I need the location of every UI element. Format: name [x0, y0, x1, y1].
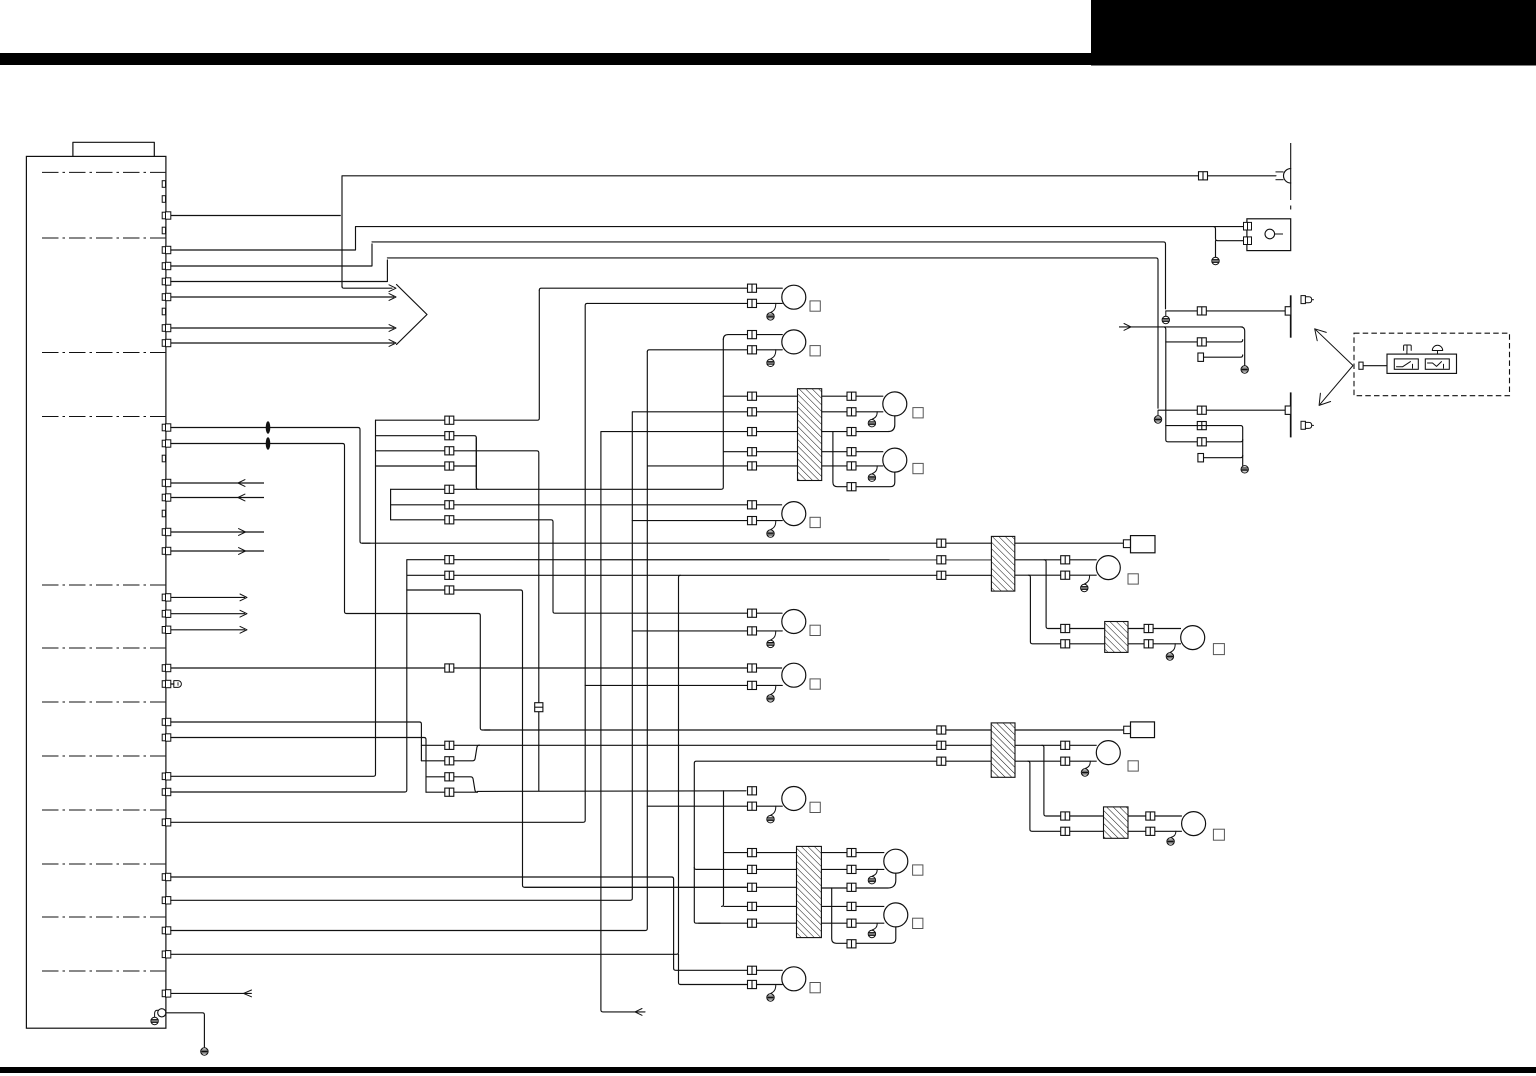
wire arrow pin 597.4	[171, 596, 245, 598]
wire pin 930.5 to x647.3	[171, 352, 648, 931]
connector pair lampB bottom	[748, 346, 757, 354]
vertical x476.3 rows2/4 to row5	[476, 438, 478, 490]
lamp D circle	[782, 610, 806, 634]
label square lampK2	[1213, 829, 1224, 840]
lamp J circle	[1096, 556, 1120, 580]
ECU pin y877	[162, 874, 165, 881]
ECU block top tab	[73, 142, 154, 156]
lamp J2 circle	[1096, 741, 1120, 765]
ECU internal dash-dot divider 2	[42, 237, 165, 239]
connector pair row5	[445, 485, 454, 493]
ECU pin y250	[162, 247, 165, 254]
wire net H1 (y175.8 feed + chevron drop)	[342, 176, 1276, 287]
ECU pin y199	[162, 196, 165, 203]
ground symbol x1244.7 upper	[1241, 366, 1248, 373]
fan row3 y450.8	[376, 451, 539, 791]
lampA bottom segment	[587, 302, 782, 304]
connector pair hatch1 row431 left	[748, 428, 757, 436]
connector pair row7 fan	[445, 516, 454, 524]
lampG ground stub	[771, 985, 776, 994]
plug icon upper	[1301, 296, 1305, 304]
hatch2 branch x832.9 lower	[832, 888, 896, 943]
arrowhead y629.8	[240, 626, 247, 633]
hatch2 rows left	[724, 852, 797, 854]
wire H3 y241.9 to right	[372, 242, 1166, 309]
connector pair lampA bottom	[748, 299, 757, 307]
connector pair lampF bottom	[748, 802, 757, 810]
lamp A headlight circle	[782, 285, 806, 309]
connector pair K2 left top	[1061, 812, 1070, 820]
device box 1 connector	[1123, 540, 1130, 548]
hatch5 row2 right to lampJ2	[1015, 744, 1097, 746]
hatch1 rows left	[647, 465, 797, 467]
connector pair row792 lamp	[748, 787, 757, 795]
ground symbol x1244.7 lower	[1241, 466, 1248, 473]
fan row7 y519.8	[391, 520, 782, 613]
wire pin 722 to x421.4	[171, 722, 422, 761]
ECU pin y532	[162, 529, 165, 536]
unit bar lower	[1290, 392, 1292, 437]
connector pair H top	[847, 392, 856, 400]
label square lampF	[810, 802, 820, 812]
label square lampB	[810, 346, 820, 356]
branch x1046.1 J to K	[1044, 560, 1105, 629]
wire pin 281.5 riser to H4	[171, 260, 388, 282]
label square lampG	[810, 983, 820, 993]
lampB top segment	[723, 335, 782, 340]
page frame / header bar	[0, 53, 1091, 65]
arrowhead ground run	[635, 1009, 642, 1016]
connector pair row8 fan	[445, 556, 454, 564]
connector pair M top	[847, 902, 856, 910]
single connector row357	[1198, 353, 1204, 361]
ECU pin y266	[162, 263, 165, 270]
ground symbol lampK2	[1167, 838, 1174, 845]
connector pair row4	[445, 462, 454, 470]
branch x1029.9 J2 to K2	[1028, 761, 1104, 831]
hatch3 row2 right to lampJ	[1015, 559, 1097, 561]
hatch1 row5 right	[822, 465, 884, 467]
ECU pin y184	[162, 181, 165, 188]
ECU pin y993.4	[162, 990, 165, 997]
single connector row310	[1285, 307, 1291, 315]
ECU pin y281.5	[162, 278, 165, 285]
wire arrow pin 629.8	[171, 629, 245, 631]
wire row y730 to hatch5	[484, 729, 991, 731]
ECU internal dash-dot divider 5	[42, 584, 165, 586]
connector pair row310	[1197, 307, 1206, 315]
lampI ground stub	[872, 466, 877, 474]
ground symbol lampJ	[1081, 584, 1088, 591]
arrowhead y551	[239, 548, 246, 555]
connector pair I return	[847, 483, 856, 491]
ground symbol lampE	[767, 695, 774, 702]
vertical x694.8 row761 to hatch2	[694, 761, 991, 923]
ground symbol lampA	[767, 313, 774, 320]
fan row y776.8 jog	[426, 777, 478, 792]
connector pair row668 lamp	[748, 664, 757, 672]
ground stub x1158 lower	[1157, 410, 1159, 416]
ECU pin y458.5	[162, 455, 165, 462]
wire pin 668 to lampE top	[171, 667, 782, 669]
connector pair row9 right	[937, 571, 946, 579]
hatch block 2	[797, 846, 822, 937]
connector pair L bottom	[847, 865, 856, 873]
fan vertical x390.6	[390, 489, 392, 520]
connector pair lampG bottom	[748, 980, 757, 988]
ground symbol body	[201, 1048, 208, 1055]
lamp C circle	[782, 502, 806, 526]
wire pin 954.3 to x678.5	[171, 575, 681, 954]
lamp L circle	[884, 849, 908, 873]
lampF bottom segment	[647, 805, 782, 807]
connector pair lampB top	[748, 331, 757, 339]
arrowhead y613.7	[240, 610, 247, 617]
relay pin lower	[1244, 237, 1248, 245]
lampG top segment	[674, 968, 783, 970]
lampL return wire	[821, 873, 895, 888]
stub plug pin 684	[171, 683, 174, 685]
wire arrow pin 343	[171, 342, 394, 344]
hatch1 row4 right to lampI	[822, 451, 884, 453]
fan row1 y420.2	[376, 290, 540, 420]
wire pin 877 to x673.6	[171, 877, 674, 968]
connector pair row425	[1197, 422, 1206, 430]
connector pair J bottom	[1061, 571, 1070, 579]
hatch block 4	[1105, 622, 1128, 653]
fan row6 y504.8 to lampC	[391, 504, 782, 506]
ground symbol ECU case	[151, 1017, 158, 1024]
ECU pin y230.5	[162, 227, 165, 234]
label square lampJ	[1128, 574, 1138, 584]
relay contact circle	[1265, 229, 1275, 239]
hatch1 row2 right to lampH bottom	[822, 411, 884, 413]
ground symbol lampM	[868, 930, 875, 937]
wire arrow-out pin 532	[171, 531, 264, 533]
connector pair lampD bottom	[748, 627, 757, 635]
lampG bottom segment	[681, 984, 783, 986]
wire arrow-in pin 993.4	[171, 992, 252, 994]
detail switch cell 2	[1425, 359, 1449, 369]
lamp E circle	[782, 663, 806, 687]
connector pair hatch1 row396 left	[748, 392, 757, 400]
lampK2 ground stub	[1171, 831, 1176, 837]
lampE bottom segment	[585, 684, 782, 686]
hatch block 6	[1104, 807, 1129, 838]
ECU block outline	[26, 156, 166, 1028]
hatch1 branch x832.9 upper	[833, 432, 895, 487]
ECU pin y776.3	[162, 773, 165, 780]
wire pin 266 riser to H3	[171, 244, 372, 266]
device box 1	[1131, 536, 1156, 553]
wire pin 900.3 to x632.3	[171, 412, 633, 901]
ECU pin y930.5	[162, 927, 165, 934]
ECU pin y737.5	[162, 734, 165, 741]
wire arrow pin 613.7	[171, 613, 245, 615]
label square lampC	[810, 517, 820, 527]
connector pair M bottom	[847, 919, 856, 927]
hatch2 row852 right to lampL	[821, 852, 884, 854]
lamp K circle	[1181, 626, 1205, 650]
hatch block 5	[991, 723, 1015, 777]
detail switch cell 1	[1394, 359, 1418, 369]
connector pair on H1	[1199, 172, 1208, 180]
label square lampK	[1213, 644, 1224, 655]
dashed detail box	[1354, 333, 1510, 396]
arrowhead y993.4	[244, 990, 252, 997]
wire case ground to body ground	[166, 1013, 205, 1047]
connector pair row668 fan	[445, 664, 454, 672]
ECU pin y215.5	[162, 212, 165, 219]
lamp K2 circle	[1182, 812, 1206, 836]
ground symbol lampJ2	[1081, 769, 1088, 776]
headlight row C y441.8 pair	[1197, 438, 1206, 446]
wire pin 250 riser to H2	[171, 227, 356, 250]
ECU internal dash-dot divider 12	[42, 970, 165, 972]
ground symbol lampF	[767, 816, 774, 823]
headlight row A y410.2	[1158, 409, 1285, 411]
connector pair row6 lamp	[748, 501, 757, 509]
connector pair K right bottom	[1144, 640, 1153, 648]
ground symbol lampG	[767, 994, 774, 1001]
single connector row457	[1198, 454, 1204, 462]
wire arrow-in pin 497.5	[171, 497, 264, 499]
wire pin 822.3 to x585.2	[171, 303, 587, 822]
hatch5 row1 right to device box 2	[1015, 729, 1124, 731]
hatch6 row1 right to lampK2	[1128, 815, 1182, 817]
lampF ground stub	[771, 806, 776, 815]
lampE ground stub	[771, 685, 776, 694]
arrowhead y328	[389, 325, 396, 332]
connector pair lampA top	[748, 284, 757, 292]
hatch block 3	[991, 536, 1014, 591]
ECU pin y822.3	[162, 819, 165, 826]
ECU internal dash-dot divider 11	[42, 916, 165, 918]
device box 2	[1131, 722, 1155, 738]
fan row y745.3	[421, 744, 991, 746]
connector pair row3	[445, 447, 454, 455]
connector pair K left bottom	[1061, 640, 1070, 648]
branch x1165.8 upper	[1164, 327, 1243, 442]
connector pair on vertical x538.8	[535, 703, 543, 712]
header black box top right	[1091, 0, 1536, 66]
wire row y543.5 to hatch3	[362, 542, 991, 544]
lampM ground stub	[872, 923, 877, 930]
ground symbol lampK	[1166, 653, 1173, 660]
lampA ground stub	[771, 303, 776, 312]
ground symbol lampL	[868, 877, 875, 884]
lamp I circle	[883, 448, 907, 472]
hatch1 row1 right to lampH	[822, 395, 884, 397]
detail switch box	[1387, 354, 1457, 373]
connector pair H return	[847, 428, 856, 436]
relay coil ground branch	[1214, 227, 1244, 258]
label square lampM	[913, 918, 923, 928]
footer bar	[0, 1067, 1536, 1073]
label square lampA	[810, 301, 820, 311]
connector pair hatch1 row451 left	[748, 448, 757, 456]
connector pair J2 bottom	[1061, 757, 1070, 765]
hatch3 row3 right	[1015, 574, 1097, 576]
lamp G circle	[782, 967, 806, 991]
connector pair row730	[937, 726, 946, 734]
ground symbol lampH	[868, 420, 875, 427]
ECU internal dash-dot divider 4	[42, 416, 165, 418]
hatch block 1	[798, 389, 822, 481]
arrowhead feed y326.9	[1124, 324, 1131, 331]
lampB bottom segment	[647, 350, 782, 352]
hatch4 row1 right to lampK	[1128, 628, 1181, 630]
lampD ground stub	[771, 631, 776, 640]
connector pair H bottom	[847, 408, 856, 416]
detail wire	[1363, 365, 1387, 367]
wire pin 737.5 to x426	[171, 738, 426, 793]
lampA feed segment	[539, 288, 782, 290]
detail connector stub	[1359, 362, 1363, 369]
fan row10 y590	[407, 590, 746, 887]
wire H2 y226.6 to relay	[356, 226, 1244, 228]
wire pin 215.5 to vertical x342	[171, 215, 341, 217]
ECU internal dash-dot divider 8	[42, 755, 165, 757]
ECU case ground circle	[158, 1009, 166, 1017]
label square lampJ2	[1128, 761, 1138, 771]
ECU pin y328	[162, 325, 165, 332]
connector pair J top	[1061, 556, 1070, 564]
connector pair row9 fan	[445, 571, 454, 579]
detail switch cell 2 lever	[1428, 362, 1444, 369]
ECU pin y443.5	[162, 440, 165, 447]
connector pair I bottom	[847, 462, 856, 470]
lampC bottom segment	[632, 520, 782, 522]
connector pair row410	[1197, 406, 1206, 414]
connector pair row906 left	[748, 902, 757, 910]
hatch5 row3 right	[1015, 760, 1097, 762]
arrowhead y497.5	[238, 494, 245, 501]
hatch2 row906 right to lampM	[821, 905, 884, 907]
connector pair M return	[847, 940, 856, 948]
connector pair L top	[847, 849, 856, 857]
splice blob y443.5	[266, 437, 271, 449]
fan row8 y559.7 to hatch3	[407, 559, 992, 561]
ECU pin y613.7	[162, 610, 165, 617]
label square lampD	[810, 625, 820, 635]
headlight row D y457.7	[1204, 456, 1243, 458]
plug icon lower	[1301, 421, 1305, 429]
connector pair row776	[445, 773, 454, 781]
connector pair hatch1 row411 left	[748, 408, 757, 416]
ECU pin y483	[162, 480, 165, 487]
ECU internal dash-dot divider 6	[42, 647, 165, 649]
arrowhead y288 from H1 drop	[389, 285, 396, 292]
lamp B circle	[782, 330, 806, 354]
connector pair row2	[445, 432, 454, 440]
connector pair lampC bottom	[748, 517, 757, 525]
ECU pin y900.3	[162, 897, 165, 904]
connector pair K right top	[1144, 624, 1153, 632]
ground stub x1165.8	[1165, 311, 1167, 316]
fan row4 y466	[376, 465, 477, 467]
fan row5 y489.3	[391, 340, 724, 490]
hatch3 row1 right to device box	[1015, 542, 1124, 544]
wire pin 443.5 with splice to x344.5	[171, 444, 490, 731]
lampD bottom segment	[632, 630, 782, 632]
ECU pin y551	[162, 548, 165, 555]
arrow feed row y326.9	[1119, 326, 1243, 328]
lamp F circle	[782, 787, 806, 811]
lamp M circle	[884, 903, 908, 927]
detail lamp dome symbol	[1432, 345, 1442, 350]
vertical dash-dot x1290.7 top	[1290, 143, 1292, 200]
single connector row410	[1285, 406, 1291, 414]
arrowhead y483	[238, 480, 245, 487]
connector pair row341	[1197, 338, 1206, 346]
detail switch cell 1 lever	[1397, 362, 1413, 369]
connector pair row745 right	[937, 741, 946, 749]
connector pair I top	[847, 448, 856, 456]
wire H4 y257.9 to right	[387, 258, 1158, 408]
ECU pin y497.5	[162, 494, 165, 501]
label square lampE	[810, 679, 820, 689]
ECU pin y722	[162, 719, 165, 726]
connector pair row923 left	[748, 919, 757, 927]
wire pin 776.3 to x375.5	[171, 420, 376, 776]
ECU pin y343	[162, 340, 165, 347]
arrowhead y343	[389, 340, 396, 347]
ground symbol lampC	[767, 530, 774, 537]
ECU pin y597.4	[162, 594, 165, 601]
ECU pin y513.5	[162, 510, 165, 517]
connector pair row761 right	[937, 757, 946, 765]
fan row y792.2 to lampF	[426, 791, 746, 792]
annotation arrow upper	[1316, 330, 1353, 366]
headlight row1 y310.9	[1166, 310, 1286, 312]
connector pair row745 fan	[445, 741, 454, 749]
ground symbol x1165.8	[1162, 316, 1169, 323]
connector pair K left top	[1061, 624, 1070, 632]
fan row y760.8 jog	[421, 745, 479, 761]
unit bar upper	[1290, 295, 1292, 337]
arrowhead y297	[389, 294, 396, 301]
ECU internal dash-dot divider 1	[42, 171, 165, 173]
lampJ2 ground stub	[1085, 761, 1090, 768]
lampL ground stub	[872, 869, 877, 876]
label square lampH	[913, 408, 923, 418]
arrowhead y532	[239, 529, 246, 536]
splice blob y427.5	[266, 421, 271, 433]
lampB ground stub	[771, 350, 776, 359]
ECU pin y311.5	[162, 308, 165, 315]
relay pin upper	[1244, 222, 1248, 230]
fan row9 y575.3 to hatch3	[407, 574, 992, 576]
connector pair row543	[937, 539, 946, 547]
lampJ ground stub	[1085, 575, 1090, 584]
wire pin 427.5 with splice to x360	[171, 428, 370, 544]
feed drop x1244.7 upper	[1241, 327, 1245, 366]
hatch6 row2 right	[1128, 830, 1182, 832]
hatch4 row2 right	[1128, 643, 1181, 645]
arrowhead y597.4	[240, 594, 247, 601]
label square lampL	[913, 865, 923, 875]
fan row2 y435.7	[376, 436, 477, 488]
vertical x600.9 ground run	[601, 432, 645, 1012]
ground symbol lampB	[767, 359, 774, 366]
connector pair row852 left	[748, 849, 757, 857]
ECU pin y792	[162, 789, 165, 796]
annotation arrow lower	[1320, 366, 1353, 405]
headlight row B y425.6	[1166, 426, 1243, 466]
wire arrow-out pin 551	[171, 550, 264, 552]
connector pair row869 left	[748, 865, 757, 873]
